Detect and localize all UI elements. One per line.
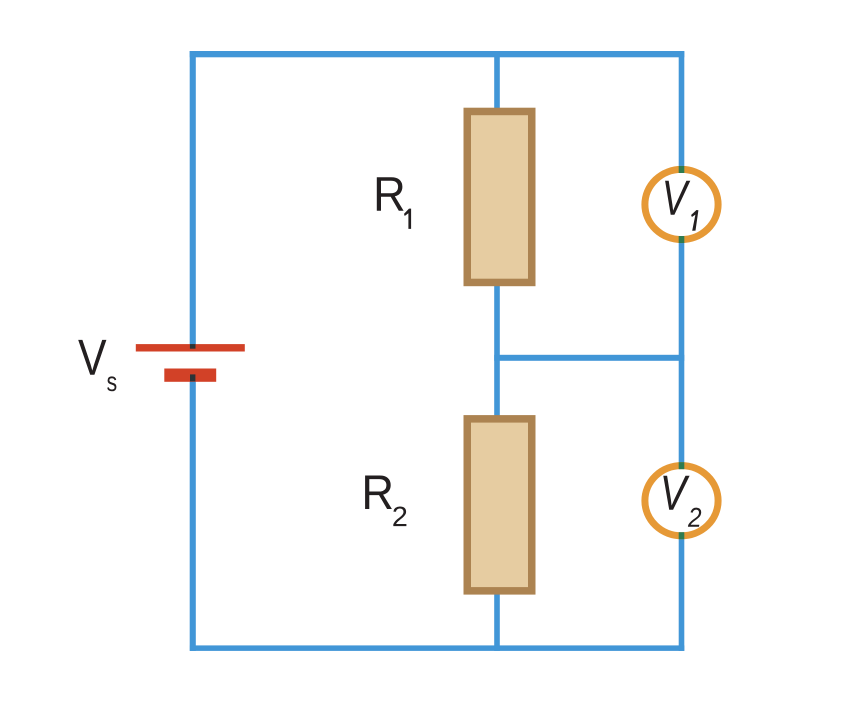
voltmeter V1: green overlap of wire on ring (top)	[679, 166, 685, 173]
label Vs: V	[78, 340, 106, 375]
label V1: italic V	[665, 181, 690, 215]
wire: middle vertical branch through R1 and R2	[494, 51, 500, 651]
wire: left vertical lower segment (battery - plate to bottom rail)	[190, 374, 196, 651]
label V1: subscript italic 1	[691, 210, 698, 231]
wire: top horizontal from left branch to right branch	[190, 51, 685, 57]
voltmeter V2: green overlap of wire on ring (bottom)	[679, 532, 685, 539]
voltmeter V2: green overlap of wire on ring (top)	[679, 462, 685, 469]
label V2: italic V	[663, 476, 689, 510]
label Vs: subscript s	[107, 376, 116, 391]
label R2: subscript 2	[393, 507, 406, 527]
voltmeter V1: green overlap of wire on ring (bottom)	[679, 236, 685, 243]
label R1: subscript 1	[404, 209, 411, 229]
wire: left vertical upper segment (top rail to battery + plate)	[190, 51, 196, 349]
wire: right vertical branch through V1 and V2	[679, 51, 685, 651]
voltmeter V2 circle	[645, 466, 718, 536]
label R2: R	[365, 476, 392, 510]
resistor R2 body	[467, 419, 532, 591]
label R1: R	[377, 177, 404, 211]
battery Vs: dark overlap of wire on - plate	[190, 374, 195, 381]
wire: bottom horizontal from left branch to right branch	[190, 645, 684, 651]
battery Vs: dark overlap of wire on + plate	[190, 344, 196, 349]
resistor R1 body	[467, 111, 532, 282]
voltmeter V1 circle	[645, 169, 718, 239]
wire: middle horizontal from node between R1/R2 to right branch	[494, 355, 684, 361]
label V2: subscript italic 2	[688, 508, 701, 527]
battery Vs: bottom (-) plate	[164, 369, 216, 382]
battery Vs: top (+) plate	[136, 344, 245, 351]
